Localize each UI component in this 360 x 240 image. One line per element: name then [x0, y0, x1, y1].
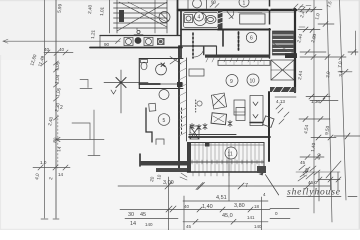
right bottom scribbles — [296, 161, 341, 181]
shaft window top-right — [273, 31, 294, 55]
svg-text:14: 14 — [130, 221, 136, 227]
leader to label — [265, 175, 278, 195]
scan edge top — [0, 0, 360, 1]
svg-text:141: 141 — [247, 215, 255, 220]
svg-text:7: 7 — [245, 183, 248, 189]
svg-text:45: 45 — [186, 224, 192, 229]
bottom dim texts — [128, 180, 262, 229]
wc lower wall — [139, 88, 183, 90]
svg-text:40: 40 — [184, 204, 190, 209]
terrace deck — [188, 143, 265, 173]
bottom right small lines — [270, 208, 299, 210]
wall below stair — [100, 35, 180, 37]
inner left wall line — [186, 58, 188, 141]
wall below bath — [181, 29, 222, 31]
right inner wall — [268, 92, 270, 161]
door swing top wall — [227, 12, 234, 19]
right ticks y96.5 — [306, 96, 330, 98]
svg-text:5: 5 — [163, 118, 166, 124]
dashed window pane — [238, 32, 240, 50]
dotted wall continuation — [181, 108, 183, 136]
bottom dim vconnector — [228, 149, 230, 201]
bottom wall lower band — [156, 168, 187, 172]
svg-text:40: 40 — [59, 47, 65, 52]
slash tick 2 — [238, 183, 244, 189]
slashes line y209 — [197, 207, 253, 212]
wc room top wall — [139, 58, 183, 60]
bed middle — [234, 100, 245, 115]
left leader arrow — [56, 138, 60, 142]
left ticks x56 — [54, 68, 59, 72]
svg-text:45,0: 45,0 — [222, 213, 233, 219]
svg-text:1,36: 1,36 — [311, 99, 320, 104]
svg-text:1,0: 1,0 — [40, 160, 47, 165]
svg-text:30: 30 — [128, 212, 134, 218]
svg-text:0: 0 — [275, 211, 278, 216]
svg-text:4,13: 4,13 — [276, 99, 285, 104]
right ticks y24 — [318, 23, 334, 25]
svg-text:1,40: 1,40 — [202, 204, 213, 210]
svg-text:1: 1 — [243, 1, 246, 7]
deck bottom ticks — [193, 173, 229, 177]
room 5 circle — [158, 114, 170, 126]
bottom-left dim line — [125, 218, 178, 220]
svg-text:14: 14 — [58, 172, 64, 177]
right long tick y136 — [334, 135, 360, 137]
left leader step — [57, 110, 104, 156]
right ticks y71.8 — [338, 71, 352, 73]
stair treads — [114, 3, 168, 28]
right ticks y137 — [311, 137, 336, 139]
top wall of main block — [178, 9, 296, 12]
hatch corner block — [190, 126, 199, 139]
svg-text:7,0: 7,0 — [337, 61, 343, 68]
right ticks y52 — [300, 50, 358, 55]
svg-text:3,4: 3,4 — [338, 70, 344, 77]
pipe marks — [137, 30, 140, 33]
right ticks y29.5 — [298, 29, 320, 31]
datum cross — [120, 70, 122, 113]
deck top block — [205, 142, 210, 147]
wc cubicle walls — [187, 0, 189, 9]
toilet circle — [193, 0, 202, 8]
slash tick 3 — [305, 183, 311, 189]
wash basin 2 — [159, 90, 169, 100]
wc west wall — [138, 59, 140, 89]
entry jamb vline — [203, 46, 205, 55]
svg-text:4,0: 4,0 — [316, 153, 322, 160]
wall y48 — [90, 47, 182, 49]
dim ticks right wall — [275, 96, 296, 98]
right dim vline 1 — [313, 0, 315, 213]
wall hatches — [179, 60, 187, 136]
stair mid rail — [154, 0, 156, 33]
right ticks y9.5 — [298, 6, 322, 14]
deck corner hatch — [257, 166, 266, 173]
svg-text:3,80: 3,80 — [234, 203, 245, 209]
stepped wall left — [146, 108, 152, 142]
svg-text:18: 18 — [254, 204, 260, 209]
door jamb block — [177, 82, 183, 87]
svg-text:2: 2 — [60, 105, 63, 111]
right ticks y119 — [299, 118, 330, 120]
deck bottom edge — [188, 171, 265, 173]
x-braced box right — [271, 60, 294, 80]
washer 1 — [124, 38, 133, 46]
right dim vline 2 — [327, 0, 332, 222]
bath block west wall — [177, 0, 179, 35]
washer 3 — [157, 38, 165, 45]
right extra slashes x275-300 — [278, 108, 289, 124]
svg-text:9: 9 — [230, 79, 233, 85]
svg-text:40: 40 — [44, 47, 50, 52]
shelf line room1 — [238, 12, 262, 14]
right wall top — [294, 9, 296, 92]
deck planks — [195, 143, 259, 172]
faucet symbols — [190, 121, 232, 131]
bed right — [250, 96, 263, 126]
left bottom dim line — [33, 167, 70, 169]
left wall of main block — [178, 46, 180, 168]
wall y46 entry — [180, 45, 216, 47]
scan edge right — [359, 0, 360, 230]
wardrobe bar — [218, 61, 270, 66]
svg-text:shellyhouse: shellyhouse — [287, 188, 340, 198]
dotted vline kitchen — [195, 100, 197, 112]
left dimension line 2 — [55, 0, 57, 218]
marks above wall — [210, 3, 219, 8]
tilted square furniture — [211, 93, 226, 109]
room 1 circle — [239, 0, 249, 7]
deck mid rail with ticks — [188, 161, 265, 163]
dashed vline entry — [192, 33, 194, 58]
stair right rail — [166, 0, 168, 33]
svg-text:6: 6 — [250, 36, 253, 42]
svg-text:140: 140 — [145, 222, 153, 227]
slash tick 1 — [196, 183, 205, 190]
window wall left of room6 — [222, 30, 224, 46]
bottom-left vline — [168, 177, 170, 230]
room 9 circle — [226, 75, 238, 87]
slashes near top-right corner — [292, 4, 303, 11]
svg-text:3,00: 3,00 — [163, 180, 174, 186]
room 10 circle — [247, 74, 259, 86]
left tick y63 — [42, 61, 47, 65]
room 6 circle — [246, 32, 256, 42]
left edge end ticks — [41, 218, 59, 220]
window bracket left — [80, 80, 92, 89]
right dim vline 3 — [340, 0, 347, 200]
deck corner scribble — [180, 173, 187, 180]
svg-text:1,01: 1,01 — [99, 6, 105, 16]
small furniture square — [156, 139, 164, 145]
dashed vline x57.5 — [57, 115, 59, 168]
svg-text:4: 4 — [198, 15, 201, 21]
scan edge left — [0, 55, 1, 230]
bottom right dim vlines — [318, 172, 320, 201]
bottom wall corner vline — [139, 154, 141, 166]
bottom dim line 4 — [183, 221, 268, 223]
slashes line y222 — [193, 219, 236, 224]
stair diagonal guides — [117, 2, 167, 31]
door swing X — [170, 56, 181, 64]
hatched wall y90 right — [270, 87, 296, 92]
washer 2 — [144, 38, 153, 46]
room 11 circle — [225, 147, 237, 159]
kitchen plant box — [211, 113, 227, 125]
deck top double — [188, 144, 265, 146]
bottom wall left part — [140, 161, 187, 166]
tilted box kitchen — [263, 116, 275, 128]
svg-text:10: 10 — [250, 79, 256, 85]
small rect furniture — [149, 103, 156, 111]
svg-text:45: 45 — [140, 212, 146, 218]
bottom main dim line — [118, 185, 330, 187]
svg-text:1,21: 1,21 — [90, 29, 96, 39]
entry door arc — [194, 47, 204, 57]
small circle near — [197, 101, 202, 106]
deck left edge dark — [188, 143, 192, 173]
oval fixture — [205, 16, 216, 24]
left dimension line 1 — [44, 0, 46, 218]
bath room outline — [184, 13, 219, 28]
toilet — [141, 60, 148, 63]
room 4 circle — [195, 12, 204, 21]
svg-text:140: 140 — [254, 224, 262, 229]
hatched wall right of bath — [218, 10, 223, 30]
small v mark — [111, 90, 116, 94]
scan edge bottom — [0, 229, 360, 230]
corridor desk rect — [189, 69, 204, 76]
landing circle — [159, 12, 170, 23]
svg-text:4,51: 4,51 — [216, 195, 227, 201]
left cluster y54 — [44, 52, 73, 54]
wall x270 — [269, 0, 271, 58]
svg-text:4: 4 — [263, 192, 266, 197]
hatch ticks below band — [206, 58, 262, 62]
kitchen counter — [189, 134, 236, 136]
dark band y56 — [205, 55, 270, 58]
stair newel dark — [119, 10, 124, 22]
tub circle — [194, 13, 207, 26]
stair inner rail — [116, 0, 118, 33]
svg-text:2,0: 2,0 — [325, 71, 331, 78]
west wall of bath — [180, 10, 182, 58]
dark fixture — [135, 37, 142, 44]
bottom dim line 2 — [183, 200, 268, 202]
bottom dim line 3 — [120, 209, 270, 211]
right cluster y157 — [300, 156, 324, 158]
stair left rail — [109, 0, 111, 33]
wall between rooms 1 and 6 — [218, 29, 270, 31]
sink left — [185, 15, 193, 23]
fridge — [236, 108, 245, 121]
svg-text:90: 90 — [211, 0, 217, 5]
bottom center vlines — [183, 196, 185, 230]
wash basin 1 — [156, 64, 167, 75]
svg-text:90: 90 — [104, 42, 110, 47]
right dim vline 4 — [355, 31, 357, 55]
right ticks y100 — [310, 100, 338, 102]
right ticks y57 — [300, 55, 346, 60]
stair dim hline — [3, 40, 120, 42]
svg-text:45: 45 — [300, 160, 306, 165]
svg-text:11: 11 — [228, 152, 233, 158]
label underline — [287, 196, 357, 198]
wc mid wall dark — [139, 83, 160, 85]
svg-text:2,40: 2,40 — [87, 4, 93, 14]
